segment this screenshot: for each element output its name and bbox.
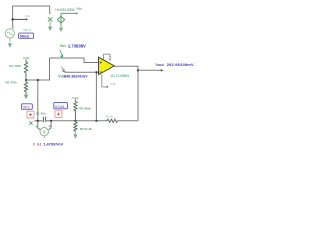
svg-text:R4 422k: R4 422k (9, 64, 21, 68)
svg-text:50kHz: 50kHz (20, 34, 30, 38)
svg-text:VCA1: VCA1 (55, 105, 65, 109)
svg-text:249.38241mV: 249.38241mV (64, 74, 88, 78)
svg-text:Vin: Vin (26, 14, 30, 18)
svg-text:V_G1: V_G1 (33, 143, 42, 147)
svg-text:+O1/51.555n: +O1/51.555n (55, 8, 76, 12)
svg-text:R2 21.3k: R2 21.3k (80, 127, 93, 131)
svg-text:Vdd: Vdd (76, 6, 82, 10)
svg-text:R1 1k: R1 1k (106, 114, 114, 118)
svg-text:1.47097mV: 1.47097mV (43, 143, 63, 147)
svg-text:Vdd: Vdd (72, 96, 78, 100)
svg-text:R6 400k: R6 400k (79, 106, 91, 110)
svg-text:292.96349mV: 292.96349mV (167, 62, 194, 67)
svg-text:VF1: VF1 (23, 106, 30, 110)
svg-text:Vin:: Vin: (60, 44, 67, 48)
svg-text:C1 45n: C1 45n (36, 112, 46, 116)
svg-text:1.73838V: 1.73838V (68, 43, 86, 48)
svg-text:Vdd: Vdd (23, 56, 29, 60)
svg-text:VG1 5: VG1 5 (23, 28, 31, 32)
svg-text:R5 475k: R5 475k (6, 80, 18, 84)
svg-text:U1 TLV9061: U1 TLV9061 (111, 74, 130, 78)
svg-text:Vout: Vout (155, 62, 164, 67)
svg-text:V: V (43, 130, 46, 135)
svg-text:5 1V: 5 1V (110, 82, 116, 86)
